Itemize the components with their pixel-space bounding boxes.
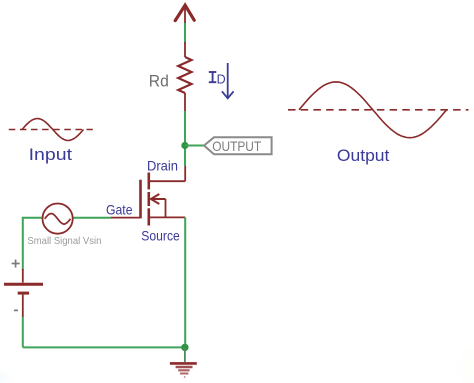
wire: Rd top pin xyxy=(184,42,186,57)
svg-text:Gate: Gate xyxy=(106,202,133,218)
output waveform sine xyxy=(299,82,447,138)
voltage source Vsin xyxy=(43,204,73,234)
svg-text:Output: Output xyxy=(337,146,390,165)
svg-text:OUTPUT: OUTPUT xyxy=(212,138,261,154)
wire: left of Vsin xyxy=(22,217,43,219)
svg-text:Drain: Drain xyxy=(147,157,178,173)
wire: VDD pin stub xyxy=(184,6,186,23)
current arrow ID xyxy=(222,63,234,98)
wire: battery to bottom rail xyxy=(22,317,24,347)
resistor Rd xyxy=(178,57,191,93)
wire: VDD to Rd xyxy=(184,23,186,43)
wire: bottom rail xyxy=(23,346,185,348)
output waveform baseline xyxy=(288,109,469,111)
svg-text:Small Signal Vsin: Small Signal Vsin xyxy=(27,235,101,247)
junction: output node xyxy=(181,142,188,149)
svg-text:Source: Source xyxy=(141,227,180,243)
wire: node to OUTPUT tag xyxy=(185,145,204,147)
label ID xyxy=(209,72,217,82)
input waveform sine xyxy=(22,119,84,141)
wire: node to ground xyxy=(184,347,186,362)
transistor Q1 xyxy=(111,173,186,226)
net label OUTPUT xyxy=(204,137,272,154)
wire: drain pin xyxy=(150,166,186,181)
label - xyxy=(14,309,18,311)
battery V1 xyxy=(4,269,43,317)
wire: source to ground node xyxy=(184,217,186,347)
ground xyxy=(170,363,197,377)
wire: left drop to battery xyxy=(22,218,24,270)
input waveform baseline xyxy=(9,129,93,131)
wire: Vsin to gate xyxy=(73,217,111,219)
wire: Rd to output node xyxy=(184,111,186,166)
svg-text:Input: Input xyxy=(29,146,73,164)
wire: Rd bottom pin xyxy=(184,93,186,111)
label + xyxy=(12,260,20,268)
power arrow VDD xyxy=(175,5,194,20)
decorative corner tints xyxy=(0,368,13,383)
junction: ground node xyxy=(181,344,188,351)
svg-text:D: D xyxy=(217,73,226,87)
svg-text:Rd: Rd xyxy=(149,72,169,91)
